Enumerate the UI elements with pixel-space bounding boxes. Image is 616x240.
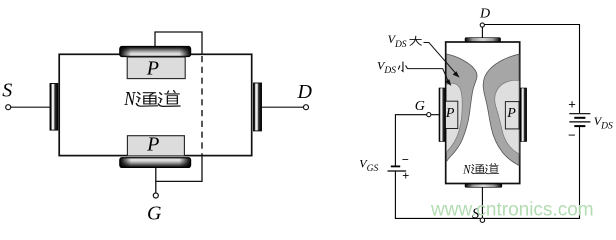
top gate cap electrode: [120, 46, 191, 56]
wire: G circle to channel: [431, 114, 440, 116]
svg-text:VDS: VDS: [377, 58, 396, 76]
bottom P region: [127, 136, 184, 156]
svg-text:+: +: [402, 168, 409, 182]
svg-text:VDS: VDS: [388, 32, 407, 50]
dashed gate link line through channel: [201, 56, 203, 155]
terminal S circle: [6, 105, 11, 110]
top cap right diagram: [465, 38, 500, 42]
depletion region small VDS right inner: [495, 80, 519, 154]
wire S: [11, 106, 51, 108]
wire D: [262, 106, 304, 108]
svg-text:+: +: [568, 97, 576, 112]
wire: gate top link from top cap up and right: [155, 32, 202, 55]
depletion region small VDS left inner: [447, 83, 463, 152]
svg-text:N: N: [462, 162, 471, 177]
svg-text:G: G: [415, 99, 425, 114]
svg-text:D: D: [297, 81, 313, 103]
svg-text:P: P: [146, 57, 159, 79]
P region right (right diagram): [505, 102, 519, 129]
leader line VDS-large: [424, 43, 457, 74]
svg-text:VDS: VDS: [594, 114, 613, 132]
leader line VDS-small: [408, 69, 449, 83]
wire: VGS branch vertical: [395, 115, 427, 219]
glyph 小: [398, 62, 407, 71]
top P region: [127, 57, 185, 79]
gate electrode bar right (right diagram): [520, 88, 526, 142]
channel body box: [59, 54, 252, 155]
glyph 通: [136, 92, 157, 106]
wire: D to VDS battery top: [485, 25, 580, 114]
terminal G circle: [153, 193, 158, 198]
svg-text:P: P: [146, 134, 159, 156]
glyph 通 small: [471, 165, 484, 174]
glyph 道 small: [485, 163, 498, 173]
wire: bottom rail: [395, 217, 580, 219]
bottom gate cap electrode: [120, 158, 191, 168]
glyph 道: [158, 91, 180, 107]
arrowhead VDS-small: [445, 79, 451, 86]
gate electrode bar left (right diagram): [439, 88, 445, 142]
battery VGS plates: [391, 165, 400, 167]
battery VDS plates: [569, 113, 590, 115]
svg-text:D: D: [479, 7, 490, 22]
svg-text:P: P: [506, 106, 516, 121]
svg-text:P: P: [445, 106, 455, 121]
wire: bottom cap to G terminal: [155, 168, 157, 194]
wire: bottom cap to S: [481, 187, 483, 218]
svg-text:G: G: [147, 203, 162, 225]
svg-text:VGS: VGS: [359, 157, 378, 175]
svg-text:−: −: [568, 128, 576, 143]
glyph 大: [410, 36, 421, 45]
wire: D down to cap: [481, 27, 483, 38]
channel body box right: [446, 42, 520, 184]
svg-text:N: N: [123, 88, 136, 110]
terminal G circle right: [427, 113, 431, 117]
svg-text:−: −: [402, 152, 409, 166]
svg-text:www.cntronics.com: www.cntronics.com: [430, 200, 594, 221]
wire: VDS battery bottom down: [579, 127, 581, 219]
terminal D circle: [304, 105, 309, 110]
depletion region large VDS right wing: [483, 54, 519, 165]
bottom cap right diagram: [465, 184, 502, 187]
P region left (right diagram): [445, 101, 457, 128]
source electrode bar left: [50, 84, 58, 131]
drain electrode bar right: [254, 83, 262, 131]
arrowhead VDS-large: [453, 71, 460, 77]
depletion region large VDS left wing: [447, 54, 478, 162]
terminal D circle right: [480, 23, 484, 27]
terminal S circle right: [480, 218, 484, 222]
wire: gate bottom link: [156, 156, 202, 182]
svg-text:S: S: [2, 79, 12, 101]
